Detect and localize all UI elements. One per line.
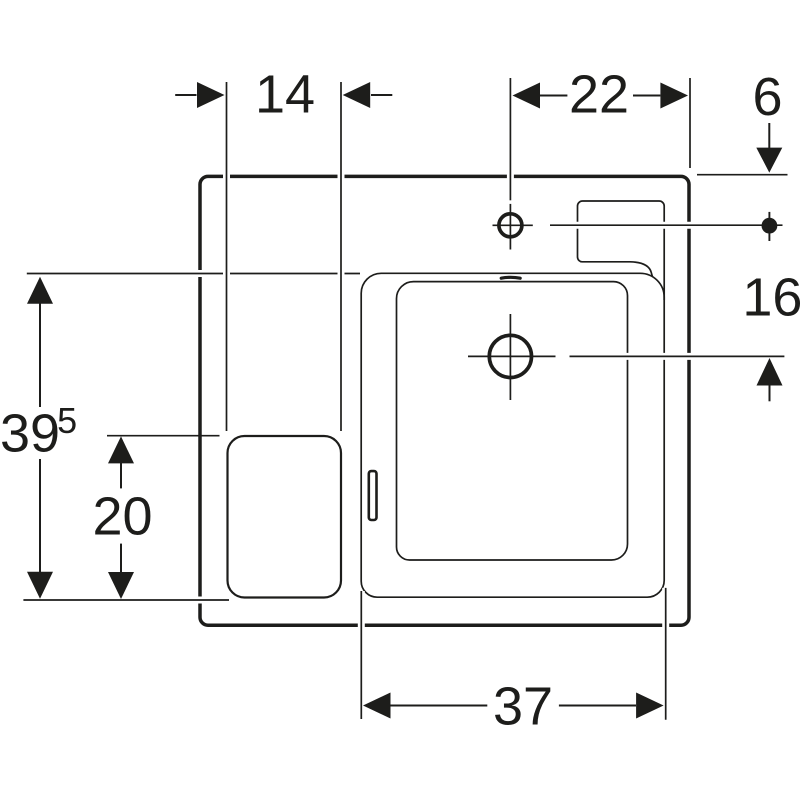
dimension 14: left arrow [175,82,224,108]
extension line 37-left (basin left edge) [358,591,365,719]
dimension 20: down arrow at bottom [108,544,134,599]
overflow slot on basin rim [501,276,520,280]
leader line from drain to right edge [570,353,785,360]
basin inner bowl [397,282,628,560]
towel rail handle on basin left edge [369,471,377,520]
basin outer rim [361,273,664,597]
washbasin outer fixture outline [200,176,689,625]
dimension 39.5: down arrow at bottom [27,459,53,599]
faucet centerline (22 left datum) [507,78,514,250]
dimension 16: up arrow [757,358,783,401]
extension line 37-right (basin right edge) [662,588,669,720]
extension line 22-right (fixture right edge) [689,78,691,168]
dimension 14: right arrow [343,82,393,108]
reference line soap dish bottom (39.5 / 20 bottom datum) [23,597,229,604]
drain hole circle [489,335,531,377]
extension line 14-left (soap dish left edge) [223,82,230,431]
reference line soap dish top (20 top datum) [107,435,220,437]
tap deck shelf (top right) [577,201,664,300]
reference line fixture top extended right (6 top datum) [697,174,788,176]
dimension 22: right arrow (points right to fixture edge line) [633,83,688,109]
svg-text:37: 37 [493,676,553,736]
extension line 14-right (soap dish right edge) [338,82,345,431]
datum dot tick mark [768,212,770,241]
dimension 22: left arrow (points left to faucet centerline) [513,83,568,109]
dimension 37: left arrow (points left) [363,693,487,719]
faucet hole crosshair horizontal arm [493,224,533,226]
dimension 39.5: up arrow at top [27,277,53,407]
reference line basin top extended left (39.5 top datum) [27,270,360,277]
dimension 20: up arrow at top [108,436,134,488]
svg-text:22: 22 [569,64,629,124]
svg-text:20: 20 [92,487,152,547]
svg-text:16: 16 [742,267,800,327]
dimension 37: right arrow (points right) [559,693,664,719]
leader line from faucet hole to right datum dot [550,222,783,229]
faucet hole circle [499,214,522,237]
datum dot on faucet leader (right) [762,218,778,234]
svg-text:6: 6 [752,67,782,127]
svg-text:14: 14 [255,64,315,124]
drain crosshair horizontal arm [468,355,556,357]
soap dish / shelf basin (left) [228,436,342,598]
dimension 6: down arrow [756,123,782,173]
drain centerline vertical [509,314,511,400]
